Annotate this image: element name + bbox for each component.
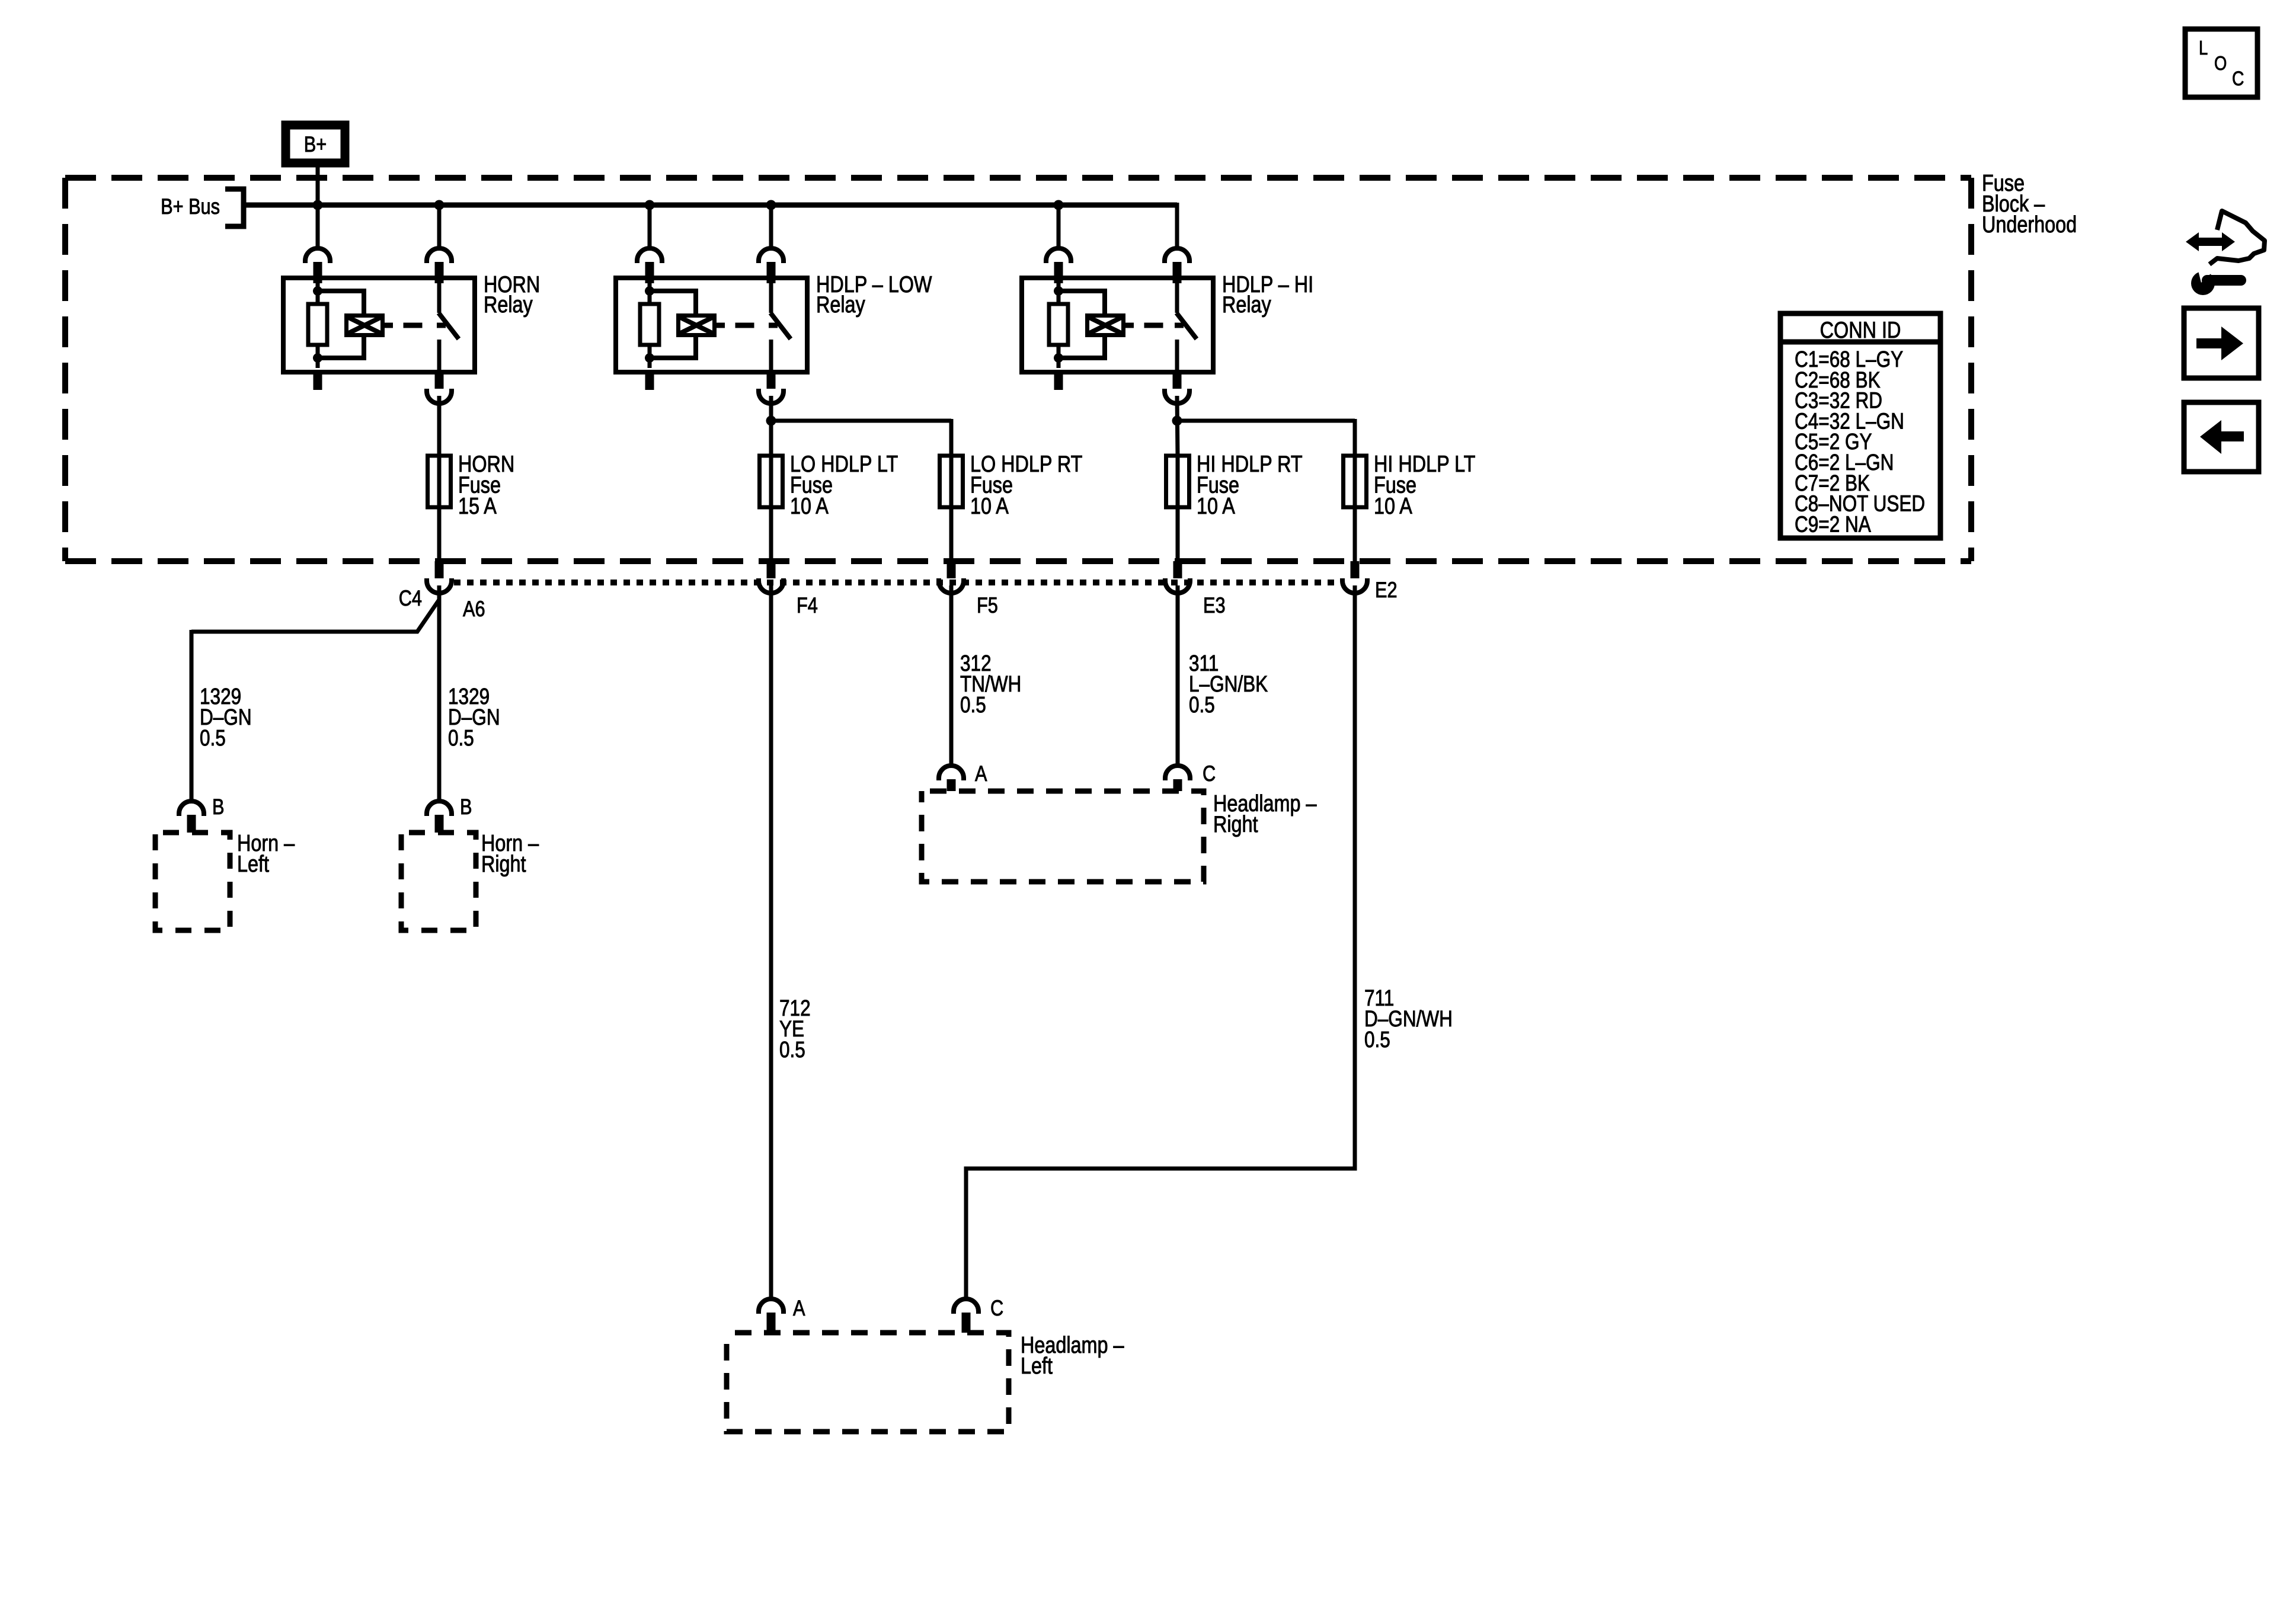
svg-text:0.5: 0.5	[448, 725, 474, 750]
relay HORN box	[283, 278, 475, 372]
pin label E2	[1375, 578, 1398, 602]
relay HORN switch contacts	[439, 278, 459, 372]
connector pin A Headlamp-Left	[759, 1299, 784, 1333]
svg-text:L: L	[2199, 38, 2208, 59]
wire bus to HORN coil pin	[316, 205, 320, 247]
pin label A (Headlamp-Left)	[793, 1296, 805, 1320]
pin label B (Horn-Right)	[460, 795, 472, 819]
svg-text:0.5: 0.5	[960, 692, 986, 717]
connector C4/A6 (horn feed)	[427, 561, 452, 593]
svg-text:0.5: 0.5	[779, 1037, 805, 1062]
Fuse Block - Underhood dashed outline	[65, 178, 1971, 561]
component Headlamp-Right dashed box	[922, 791, 1204, 882]
svg-text:C4: C4	[399, 586, 422, 610]
wire HDLP-LOW relay output split	[766, 397, 952, 456]
wire circuit 712 YE (F4 to Headlamp-Left A)	[769, 588, 773, 1298]
label fuse HI HDLP LT 10A	[1374, 451, 1476, 519]
connector F5	[939, 561, 964, 593]
pin label C4	[399, 586, 422, 610]
svg-text:Underhood: Underhood	[1982, 212, 2077, 238]
svg-text:C9=2 NA: C9=2 NA	[1795, 512, 1871, 537]
svg-text:Left: Left	[1021, 1353, 1053, 1379]
svg-text:C: C	[990, 1296, 1003, 1320]
pin label B (Horn-Left)	[212, 795, 224, 819]
wire bus to HDLP-HI switch pin	[1175, 205, 1179, 247]
svg-text:B: B	[212, 795, 224, 819]
connector pin A Headlamp-Right	[939, 766, 964, 791]
svg-text:Left: Left	[237, 851, 269, 877]
icon LOC box	[2185, 29, 2257, 97]
pin label F5	[977, 593, 998, 617]
fuse LO HDLP RT 10A	[940, 454, 963, 509]
connector E2	[1342, 561, 1367, 593]
label Horn-Left	[237, 830, 295, 877]
svg-text:15 A: 15 A	[458, 493, 497, 519]
svg-text:Right: Right	[1213, 811, 1258, 837]
junction HORN relay switch	[434, 200, 445, 210]
relay HORN actuation dashed link	[385, 323, 446, 328]
wire circuit 1329 branch to Horn-Left	[191, 600, 439, 800]
fuse HORN 15A	[428, 454, 451, 509]
connector pin B Horn-Right	[427, 801, 452, 833]
junction B+ drop / HORN relay coil	[313, 200, 323, 210]
relay HDLP-HI switch output pin	[1165, 372, 1189, 404]
svg-text:C: C	[2232, 68, 2244, 90]
wire HORN fuse to C4	[437, 507, 442, 561]
pin label C (Headlamp-Left)	[990, 1296, 1003, 1320]
label fuse LO HDLP RT 10A	[970, 451, 1083, 519]
svg-text:F4: F4	[797, 593, 818, 617]
label fuse HI HDLP RT 10A	[1197, 451, 1303, 519]
fuse HI HDLP RT 10A	[1166, 454, 1189, 509]
svg-text:F5: F5	[977, 593, 998, 617]
wire B+ bus line	[244, 203, 1177, 246]
svg-text:A: A	[793, 1296, 805, 1320]
connector pin HDLP-HI switch (bus side)	[1165, 248, 1189, 283]
wire bus to HORN switch pin	[437, 205, 442, 247]
fuse HI HDLP LT 10A	[1344, 454, 1367, 509]
junction HDLP-LOW relay switch	[766, 200, 776, 210]
pin label A6	[463, 597, 485, 621]
wire LO HDLP RT fuse to F5	[949, 507, 954, 561]
relay HDLP-HI actuation dashed link	[1125, 323, 1184, 328]
connector boundary dotted line	[454, 580, 1341, 585]
CONN ID table	[1780, 313, 1940, 538]
relay HDLP-LOW actuation dashed link	[717, 323, 778, 328]
connector pin HORN coil (bus side)	[305, 248, 330, 283]
connector pin HDLP-LOW switch (bus side)	[759, 248, 784, 283]
svg-text:B+: B+	[304, 132, 327, 156]
relay HDLP-LOW box	[616, 278, 807, 372]
relay HDLP-HI switch contacts	[1176, 278, 1197, 372]
label wire 312 TN/WH 0.5	[960, 651, 1021, 717]
label Fuse Block - Underhood	[1982, 170, 2077, 238]
svg-text:0.5: 0.5	[1189, 692, 1215, 717]
component Horn-Right dashed box	[401, 833, 476, 930]
component Headlamp-Left dashed box	[727, 1333, 1009, 1432]
svg-text:O: O	[2214, 53, 2227, 75]
wire bus to HDLP-LOW coil pin	[648, 205, 652, 247]
connector F4	[759, 561, 784, 593]
fuse LO HDLP LT 10A	[760, 454, 783, 509]
label Headlamp-Right	[1213, 790, 1317, 837]
icon back arrow box	[2184, 402, 2259, 472]
wire bus to HDLP-HI coil pin	[1057, 205, 1061, 247]
label fuse LO HDLP LT 10A	[790, 451, 898, 519]
wire bus to HDLP-LOW switch pin	[769, 205, 773, 247]
svg-text:B+ Bus: B+ Bus	[161, 194, 220, 219]
wire HI HDLP LT fuse to E2	[1353, 507, 1357, 561]
pin label C (Headlamp-Right)	[1203, 761, 1216, 786]
svg-text:10 A: 10 A	[1197, 493, 1235, 519]
svg-text:A6: A6	[463, 597, 485, 621]
component Horn-Left dashed box	[155, 833, 230, 930]
connector pin HORN switch (bus side)	[427, 248, 452, 283]
svg-text:E3: E3	[1203, 593, 1226, 617]
label wire 1329 D-GN 0.5 (right)	[448, 684, 500, 750]
relay HDLP-LOW switch contacts	[770, 278, 791, 372]
pin label E3	[1203, 593, 1226, 617]
svg-text:B: B	[460, 795, 472, 819]
label Headlamp-Left	[1021, 1332, 1124, 1379]
connector pin HDLP-HI coil (bus side)	[1046, 248, 1071, 283]
power feed B+ box	[286, 125, 345, 163]
pin label A (Headlamp-Right)	[975, 761, 987, 786]
wire circuit 312 TN/WH (F5 to Headlamp-Right A)	[949, 588, 954, 764]
relay HDLP-LOW switch output pin	[759, 372, 784, 404]
wire circuit 1329 to Horn-Right	[437, 588, 442, 800]
label fuse HORN 15A	[458, 451, 514, 519]
relay HORN switch output pin	[427, 372, 452, 404]
wire B+ to bus	[316, 167, 320, 205]
label wire 711 D-GN/WH 0.5	[1364, 985, 1453, 1052]
relay HORN coil circuit	[308, 281, 383, 368]
wire LO HDLP LT fuse to F4	[769, 507, 773, 561]
svg-text:Relay: Relay	[1222, 292, 1271, 318]
svg-text:Relay: Relay	[816, 292, 865, 318]
svg-text:A: A	[975, 761, 987, 786]
wire HDLP-HI relay output split	[1172, 397, 1355, 456]
svg-text:10 A: 10 A	[1374, 493, 1412, 519]
label relay HDLP-HI	[1222, 271, 1313, 318]
label relay HORN	[484, 271, 540, 318]
label Horn-Right	[481, 830, 539, 877]
icon forward arrow box	[2184, 308, 2259, 378]
wire circuit 711 D-GN/WH (E2 to Headlamp-Left C)	[966, 588, 1355, 1298]
wire circuit 311 L-GN/BK (E3 to Headlamp-Right C)	[1176, 588, 1180, 764]
label relay HDLP-LOW	[816, 271, 932, 318]
pin label F4	[797, 593, 818, 617]
svg-text:10 A: 10 A	[790, 493, 829, 519]
relay HDLP-HI coil circuit	[1049, 281, 1124, 368]
svg-text:0.5: 0.5	[200, 725, 226, 750]
svg-text:0.5: 0.5	[1364, 1027, 1390, 1052]
svg-text:10 A: 10 A	[970, 493, 1009, 519]
relay HORN coil pin (unused, below box)	[314, 372, 322, 390]
label wire 712 YE 0.5	[779, 996, 811, 1062]
junction HDLP-HI relay coil	[1054, 200, 1064, 210]
node B+ Bus bracket	[161, 189, 244, 226]
svg-text:C: C	[1203, 761, 1216, 786]
svg-text:Relay: Relay	[484, 292, 533, 318]
svg-text:CONN ID: CONN ID	[1820, 317, 1901, 343]
label wire 311 L-GN/BK 0.5	[1189, 651, 1268, 717]
svg-text:Right: Right	[481, 851, 526, 877]
relay HDLP-HI coil pin (unused, below box)	[1054, 372, 1063, 390]
relay HDLP-LOW coil circuit	[640, 281, 715, 368]
junction HDLP-LOW relay coil	[645, 200, 655, 210]
icon vehicle diagnostic (arrow, car outline, wrench)	[2186, 211, 2265, 295]
connector pin HDLP-LOW coil (bus side)	[637, 248, 662, 283]
svg-text:E2: E2	[1375, 578, 1398, 602]
label wire 1329 D-GN 0.5 (left)	[200, 684, 252, 750]
connector pin C Headlamp-Left	[954, 1299, 978, 1333]
wire HI HDLP RT fuse to E3	[1176, 507, 1180, 561]
relay HDLP-LOW coil pin (unused, below box)	[645, 372, 654, 390]
connector pin C Headlamp-Right	[1165, 766, 1190, 791]
connector pin B Horn-Left	[179, 801, 204, 833]
wire HORN relay to HORN fuse	[437, 397, 442, 456]
connector E3	[1165, 561, 1190, 593]
relay HDLP-HI box	[1022, 278, 1213, 372]
